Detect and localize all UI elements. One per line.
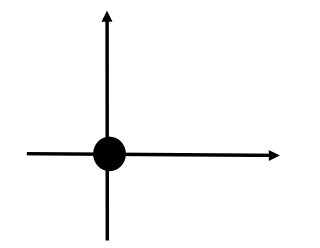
wire: horizontal conductor with current arrow pointing right [27, 154, 271, 156]
arrowhead: upward current direction arrow [102, 11, 113, 22]
wire: vertical conductor with current arrow pointing up [105, 22, 109, 241]
arrowhead: right-pointing current direction arrow [269, 150, 280, 161]
node: junction dot at wire crossing [93, 137, 126, 172]
